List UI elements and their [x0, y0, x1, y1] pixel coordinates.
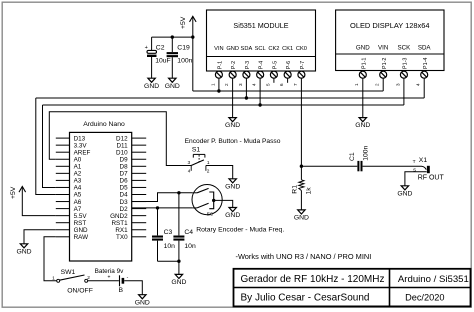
wire S1 to ground — [206, 166, 233, 179]
wire SDA rail — [36, 97, 424, 99]
wire GND pin to ground (left) — [24, 230, 56, 244]
label SW1 — [61, 269, 76, 276]
svg-text:GND: GND — [171, 279, 186, 286]
svg-text:RAW: RAW — [74, 234, 89, 241]
svg-text:C1: C1 — [349, 152, 356, 161]
svg-text:SDA: SDA — [418, 45, 432, 52]
svg-text:+: + — [108, 275, 111, 281]
svg-text:5.5V: 5.5V — [74, 213, 88, 220]
ground under C2 — [144, 78, 159, 90]
svg-text:D4: D4 — [120, 192, 129, 199]
capacitor C2 — [145, 37, 171, 78]
wire C1 to X1 — [363, 165, 422, 167]
wire SDA rail wrap to pin A5 — [36, 98, 56, 195]
wire D2 to encoder B — [132, 207, 193, 209]
OLED connector pads 1-4 — [354, 71, 428, 86]
svg-text:Bateria 9v: Bateria 9v — [95, 268, 125, 275]
svg-text:P1-1: P1-1 — [361, 58, 367, 69]
svg-text:D11: D11 — [117, 142, 129, 149]
ground under C3/C4 — [171, 274, 186, 286]
svg-text:A0: A0 — [74, 156, 82, 163]
svg-text:TX0: TX0 — [116, 234, 128, 241]
wire CK0 node to C1 — [301, 165, 357, 167]
svg-text:P-2: P-2 — [231, 61, 237, 69]
ground under battery — [135, 295, 150, 307]
wire encoder common to ground — [214, 200, 233, 207]
svg-text:-Works with UNO R3 / NANO / P: -Works with UNO R3 / NANO / PRO MINI — [236, 252, 372, 261]
ground under OLED GND — [355, 118, 370, 130]
svg-text:D2: D2 — [120, 206, 129, 213]
svg-text:CK0: CK0 — [296, 46, 307, 52]
svg-text:100n: 100n — [177, 57, 192, 64]
ground under encoder — [225, 208, 240, 220]
svg-text:D5: D5 — [120, 185, 129, 192]
svg-text:1: 1 — [52, 275, 55, 281]
svg-text:D7: D7 — [120, 171, 129, 178]
module OLED display box — [336, 10, 444, 71]
wire RAW pin to switch SW1 — [44, 237, 57, 281]
rotary encoder EC — [192, 185, 222, 217]
wire C3 to C4 bottom — [158, 260, 179, 262]
svg-text:RX1: RX1 — [115, 227, 128, 234]
+5V supply arrow (left) — [10, 186, 56, 215]
svg-text:1: 1 — [210, 83, 215, 86]
wire Si GND pin — [232, 78, 234, 117]
svg-text:4: 4 — [252, 83, 257, 86]
title block — [234, 269, 471, 307]
svg-text:D6: D6 — [120, 178, 129, 185]
svg-text:2: 2 — [207, 169, 210, 175]
svg-text:C19: C19 — [177, 44, 190, 51]
wire A0 to encoder button S1 — [49, 112, 191, 166]
svg-text:Encoder P. Button - Muda Passo: Encoder P. Button - Muda Passo — [185, 138, 281, 145]
wire OLED GND pin — [362, 78, 364, 117]
junction Si VIN on +5V rail — [217, 89, 220, 92]
svg-text:Gerador de RF 10kHz - 120MHz: Gerador de RF 10kHz - 120MHz — [241, 274, 385, 285]
svg-text:EC: EC — [207, 212, 214, 217]
OLED header pin labels P1-1..P1-4 — [361, 58, 428, 69]
wire D3 to encoder A — [132, 193, 193, 202]
svg-text:2: 2 — [224, 83, 229, 86]
svg-text:GND: GND — [165, 83, 180, 90]
wire +5V rail (VIN net) — [193, 90, 383, 92]
svg-text:C3: C3 — [164, 229, 173, 236]
junction CK0/R1/C1 node — [300, 165, 303, 168]
capacitor C19 — [167, 37, 193, 78]
wire SCL rail — [43, 104, 404, 106]
capacitor C4 — [173, 193, 196, 261]
svg-text:P-4: P-4 — [259, 61, 265, 69]
svg-text:1: 1 — [354, 83, 359, 86]
connector X1 RF OUT — [405, 157, 430, 186]
ground left of Arduino — [16, 244, 31, 256]
svg-text:R1: R1 — [291, 185, 298, 194]
svg-text:P-1: P-1 — [218, 61, 224, 69]
svg-text:2: 2 — [375, 83, 380, 86]
wire Si CK2 stub — [273, 78, 275, 83]
svg-text:VIN: VIN — [378, 45, 388, 52]
svg-text:Rotary Encoder - Muda Freq.: Rotary Encoder - Muda Freq. — [196, 227, 284, 234]
svg-text:5: 5 — [265, 83, 270, 86]
svg-text:P-7: P-7 — [300, 61, 306, 69]
wire Si SDA pin — [245, 78, 247, 98]
svg-text:GND: GND — [144, 83, 159, 90]
module Si5351 box — [207, 10, 316, 71]
IC U1 Arduino Nano — [56, 121, 146, 261]
svg-text:B: B — [119, 287, 124, 294]
junction C19 top — [171, 35, 174, 38]
svg-text:4: 4 — [188, 169, 191, 175]
wire OLED SCK pin — [403, 78, 405, 105]
svg-text:P-5: P-5 — [273, 61, 279, 69]
ground under Si GND — [225, 118, 240, 130]
svg-text:6: 6 — [279, 83, 284, 86]
Si5351 header pin labels P-1..P-7 — [218, 61, 307, 69]
wire Si CK0 to RF node — [300, 78, 302, 166]
svg-text:D9: D9 — [120, 156, 129, 163]
junction C3/C4 ground — [177, 260, 180, 263]
svg-text:10uF: 10uF — [155, 57, 171, 64]
svg-text:GND: GND — [16, 248, 31, 255]
svg-text:GND: GND — [355, 122, 370, 129]
svg-text:AREF: AREF — [74, 149, 91, 156]
svg-text:D10: D10 — [116, 149, 128, 156]
svg-text:3.3V: 3.3V — [74, 142, 88, 149]
wire SW1 to battery — [88, 280, 119, 282]
svg-text:ON/OFF: ON/OFF — [67, 288, 93, 295]
svg-text:2: 2 — [87, 275, 90, 281]
svg-text:+5V: +5V — [10, 186, 17, 199]
svg-text:SCK: SCK — [398, 45, 412, 52]
wire Si SCL pin — [259, 78, 261, 105]
svg-text:Dec/2020: Dec/2020 — [405, 293, 444, 303]
svg-text:+: + — [145, 45, 148, 51]
wire to ground below C3/C4 — [178, 261, 180, 274]
label ON/OFF — [67, 288, 93, 295]
svg-text:By Julio Cesar - CesarSound: By Julio Cesar - CesarSound — [241, 293, 370, 304]
svg-text:100n: 100n — [363, 145, 370, 160]
svg-text:GND2: GND2 — [110, 213, 128, 220]
svg-text:T: T — [413, 159, 416, 165]
switch S1 (encoder push button) — [188, 147, 210, 175]
svg-text:SCL: SCL — [255, 46, 266, 52]
svg-text:D12: D12 — [116, 135, 128, 142]
svg-text:P-6: P-6 — [286, 61, 292, 69]
svg-text:C2: C2 — [156, 44, 165, 51]
wire OLED SDA pin — [423, 78, 425, 98]
svg-text:A4: A4 — [74, 185, 82, 192]
ground under R1 — [294, 210, 309, 222]
svg-text:GND: GND — [397, 190, 412, 197]
svg-text:RF OUT: RF OUT — [418, 175, 445, 182]
junction encoder A / C4 — [177, 191, 180, 194]
ground under C19 — [165, 78, 180, 90]
svg-text:P-3: P-3 — [245, 61, 251, 69]
svg-text:SW1: SW1 — [61, 269, 76, 276]
svg-text:+5V: +5V — [180, 16, 187, 29]
wire SCL rail wrap to pin A4 — [43, 105, 56, 187]
svg-text:3: 3 — [395, 83, 400, 86]
ground under X1 — [397, 186, 412, 198]
svg-text:S: S — [413, 167, 416, 173]
svg-text:Arduino / Si5351: Arduino / Si5351 — [398, 274, 469, 285]
wire Si VIN pin — [218, 78, 220, 91]
junction Si SDA on SDA rail — [245, 96, 248, 99]
svg-text:SDA: SDA — [241, 46, 253, 52]
capacitor C1 — [349, 145, 369, 171]
svg-text:Si5351 MODULE: Si5351 MODULE — [233, 21, 288, 30]
svg-text:OLED DISPLAY 128x64: OLED DISPLAY 128x64 — [350, 21, 430, 30]
svg-text:GND: GND — [356, 45, 370, 52]
svg-text:D8: D8 — [120, 164, 129, 171]
svg-text:P1-3: P1-3 — [403, 58, 409, 69]
ground under S1 — [225, 179, 240, 191]
svg-text:VIN: VIN — [214, 46, 223, 52]
resistor R1 1k — [291, 166, 312, 210]
wire battery to ground — [124, 281, 142, 295]
svg-text:A2: A2 — [74, 171, 82, 178]
svg-text:7: 7 — [293, 83, 298, 86]
junction Si SCL on SCL rail — [258, 103, 261, 106]
wire C2/C19/+5V top rail — [152, 36, 193, 38]
svg-text:A3: A3 — [74, 178, 82, 185]
svg-text:A5: A5 — [74, 192, 82, 199]
svg-text:GND: GND — [294, 215, 309, 222]
svg-text:GND: GND — [225, 212, 240, 219]
svg-text:GND: GND — [135, 299, 150, 306]
wire OLED VIN pin — [382, 78, 384, 91]
svg-text:GND: GND — [74, 227, 88, 234]
label RF OUT — [418, 175, 445, 182]
svg-text:D3: D3 — [120, 199, 129, 206]
svg-text:S1: S1 — [192, 147, 201, 154]
svg-text:10n: 10n — [164, 243, 176, 250]
junction C3 branch — [156, 206, 159, 209]
svg-text:GND: GND — [225, 122, 240, 129]
junction +5V line top — [191, 35, 194, 38]
svg-text:RST1: RST1 — [111, 220, 128, 227]
svg-text:P1-2: P1-2 — [382, 58, 388, 69]
svg-text:3: 3 — [238, 83, 243, 86]
svg-text:X1: X1 — [419, 157, 428, 164]
wire Si CK1 stub — [287, 78, 289, 83]
svg-text:CK1: CK1 — [282, 46, 293, 52]
svg-text:C4: C4 — [184, 229, 193, 236]
svg-text:10n: 10n — [184, 243, 196, 250]
svg-text:RST: RST — [74, 220, 87, 227]
svg-text:A1: A1 — [74, 164, 82, 171]
svg-text:3: 3 — [188, 160, 191, 166]
label Rotary Encoder — [196, 227, 284, 234]
svg-text:4: 4 — [416, 83, 421, 86]
note works-with — [236, 252, 372, 261]
svg-text:A6: A6 — [74, 199, 82, 206]
svg-text:D13: D13 — [74, 135, 86, 142]
Si5351 connector pads 1-7 — [210, 71, 305, 86]
svg-text:CK2: CK2 — [268, 46, 279, 52]
svg-text:P1-4: P1-4 — [423, 58, 429, 69]
svg-text:Arduino Nano: Arduino Nano — [83, 121, 125, 128]
battery B 9V — [95, 268, 129, 294]
svg-text:GND: GND — [226, 46, 239, 52]
svg-text:1k: 1k — [306, 187, 313, 195]
svg-text:A7: A7 — [74, 206, 82, 213]
label Encoder P. Button — [185, 138, 281, 145]
+5V supply arrow (top) — [180, 16, 196, 91]
switch SW1 ON/OFF — [52, 275, 90, 283]
capacitor C3 — [152, 208, 175, 261]
svg-text:GND: GND — [225, 183, 240, 190]
